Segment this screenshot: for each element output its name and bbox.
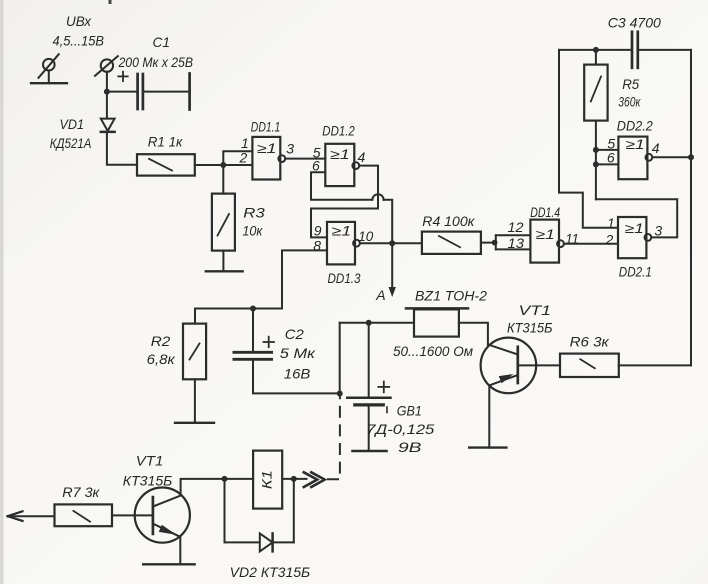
ground (R2) xyxy=(175,422,214,424)
svg-text:2: 2 xyxy=(239,150,248,166)
transistor Q2: VT1 left xyxy=(135,487,190,542)
wire R1 to gate xyxy=(195,164,253,166)
svg-text:UВх: UВх xyxy=(66,13,92,29)
svg-text:200 Мк х 25В: 200 Мк х 25В xyxy=(118,54,193,70)
svg-text:13: 13 xyxy=(508,235,525,251)
gate DD1.4 xyxy=(530,220,563,263)
svg-text:4: 4 xyxy=(358,149,366,165)
node contact chevrons xyxy=(304,472,325,487)
svg-text:DD1.4: DD1.4 xyxy=(530,204,560,220)
wire VT1 left emitter xyxy=(179,537,181,564)
wire C2 top lead xyxy=(252,309,254,352)
terminal X2 (right input plug) xyxy=(95,56,118,76)
wire to C1 xyxy=(107,91,136,93)
gate DD2.1 xyxy=(618,217,651,258)
node A arrowhead xyxy=(389,287,396,297)
node R4 split junction xyxy=(492,240,498,246)
svg-text:R6 3к: R6 3к xyxy=(570,334,610,350)
wire C1 right lead xyxy=(144,91,188,93)
svg-text:VD1: VD1 xyxy=(60,116,85,132)
resistor R1 xyxy=(137,154,195,175)
svg-text:С1: С1 xyxy=(153,34,171,50)
transistor Q1: VT1 right xyxy=(481,338,537,394)
wire C2 bottom lead xyxy=(253,361,340,394)
wire rail to R6 xyxy=(619,364,691,366)
wire DD1.3 out to R4 xyxy=(360,242,422,244)
svg-text:3: 3 xyxy=(286,140,294,156)
svg-text:С3 4700: С3 4700 xyxy=(608,15,661,31)
wire DD1.2 out to pin9 route xyxy=(311,166,378,238)
svg-text:R5: R5 xyxy=(622,76,639,92)
svg-text:10: 10 xyxy=(358,228,373,244)
wire VT1 collector xyxy=(459,323,488,345)
svg-text:R7 3к: R7 3к xyxy=(62,484,100,500)
svg-text:КТ315Б: КТ315Б xyxy=(507,320,553,336)
svg-text:≥1: ≥1 xyxy=(625,221,644,236)
svg-text:VT1: VT1 xyxy=(136,452,164,468)
wire left vertical to C2 line xyxy=(339,323,341,394)
wire R7 to VT1 base xyxy=(112,514,152,516)
svg-text:50...1600 Ом: 50...1600 Ом xyxy=(393,343,473,359)
svg-text:DD2.2: DD2.2 xyxy=(617,118,653,134)
wire R3 to ground xyxy=(222,251,224,272)
svg-text:4,5...15В: 4,5...15В xyxy=(53,33,105,49)
relay K1 xyxy=(253,451,282,509)
svg-text:4: 4 xyxy=(652,140,660,156)
node pin6 junction xyxy=(593,161,599,167)
svg-text:2: 2 xyxy=(605,232,614,248)
svg-text:6,8к: 6,8к xyxy=(147,351,176,367)
svg-text:9: 9 xyxy=(314,223,322,239)
diode VD2 xyxy=(225,479,294,552)
wire DD1.3 pin8 xyxy=(282,250,327,308)
scan top edge tick xyxy=(109,0,112,4)
svg-text:12: 12 xyxy=(508,219,524,235)
wire VT1 emitter to ground xyxy=(488,385,490,447)
svg-text:DD2.1: DD2.1 xyxy=(619,264,652,280)
svg-text:DD1.2: DD1.2 xyxy=(322,123,355,139)
node DD1.3 output junction xyxy=(389,240,395,246)
gate DD2.2 xyxy=(618,137,652,180)
op-amp U1: gate DD1.1 xyxy=(252,137,285,180)
svg-text:8: 8 xyxy=(313,238,321,254)
gate DD1.3 xyxy=(327,222,360,265)
svg-text:VT1: VT1 xyxy=(519,302,552,318)
node VD2 left junction xyxy=(222,476,228,482)
svg-text:R3: R3 xyxy=(243,205,265,221)
svg-text:9В: 9В xyxy=(398,439,422,455)
svg-text:11: 11 xyxy=(565,231,579,247)
resistor R6 xyxy=(560,354,619,377)
wire dashed to contact xyxy=(328,394,340,480)
svg-text:6: 6 xyxy=(312,158,320,174)
ground (VT1 left) xyxy=(143,563,194,565)
wire right rail xyxy=(690,50,692,366)
wire pin12/13 split xyxy=(496,235,531,249)
resistor R4 xyxy=(422,232,481,254)
svg-text:КТ315Б: КТ315Б xyxy=(123,473,173,489)
wire DD2.2 pin6 xyxy=(596,163,619,165)
svg-text:R1 1к: R1 1к xyxy=(148,134,184,150)
svg-text:С2: С2 xyxy=(285,326,304,342)
wire DD1.4 out to DD2.1 pin2 xyxy=(564,243,618,245)
node left arrowhead xyxy=(8,511,23,521)
wire VD1 to R1 xyxy=(107,133,137,165)
resistor R3 xyxy=(212,194,235,251)
svg-text:6: 6 xyxy=(607,150,615,166)
wire DD1.2 pin6 feedback xyxy=(311,172,372,200)
node rail R5 junction xyxy=(593,47,599,53)
wire GB1 top lead xyxy=(368,323,370,397)
node input junction xyxy=(104,89,110,95)
terminal X1 (left input plug) xyxy=(31,54,67,83)
gate DD1.2 xyxy=(325,144,359,186)
wire K1 to contacts xyxy=(282,478,306,480)
capacitor C1 xyxy=(118,72,143,109)
wire R2 to ground xyxy=(194,379,196,423)
svg-text:≥1: ≥1 xyxy=(330,147,350,162)
svg-text:GB1: GB1 xyxy=(397,403,422,419)
node GB1 branch xyxy=(366,320,372,326)
wire C2 top line xyxy=(195,309,282,324)
wire X2 stem xyxy=(106,72,108,119)
diode VD1 xyxy=(101,119,115,132)
wire to R3 xyxy=(222,165,224,194)
resistor R5 xyxy=(584,65,607,121)
svg-text:R4 100к: R4 100к xyxy=(422,213,475,229)
buzzer BZ1 xyxy=(406,308,468,336)
svg-text:К1: К1 xyxy=(258,470,274,489)
wire R6 to VT1 base xyxy=(520,364,561,366)
capacitor C2 xyxy=(234,337,274,360)
wire to point A xyxy=(391,243,393,288)
svg-text:≥1: ≥1 xyxy=(536,227,555,242)
wire R5 top lead xyxy=(595,50,597,65)
wire DD2.2 pin5 xyxy=(596,149,619,151)
svg-text:7Д-0,125: 7Д-0,125 xyxy=(366,421,434,437)
node C1 end bar xyxy=(188,74,191,110)
wire top rail right xyxy=(639,49,691,51)
wire VT1 left collector xyxy=(181,479,254,495)
resistor R7 xyxy=(55,504,113,526)
svg-text:А: А xyxy=(375,287,385,303)
svg-text:≥1: ≥1 xyxy=(257,141,277,156)
wire GB1 bottom lead xyxy=(368,407,370,452)
ground (GB1) xyxy=(352,450,386,452)
svg-text:КД521А: КД521А xyxy=(50,135,92,151)
svg-text:10к: 10к xyxy=(242,223,263,239)
wire BZ1 left lead xyxy=(340,322,414,324)
svg-text:≥1: ≥1 xyxy=(332,224,352,239)
ground (R3) xyxy=(206,270,243,272)
capacitor C3 xyxy=(632,32,638,68)
svg-text:5 Мк: 5 Мк xyxy=(280,345,317,361)
wire DD2.1 pin1 route from top rail xyxy=(559,50,618,228)
wire DD1.1 out to DD1.2 pin5 xyxy=(285,158,325,160)
wire arrow input left xyxy=(9,515,55,517)
svg-text:16В: 16В xyxy=(284,366,311,382)
svg-text:VD2 КТ315Б: VD2 КТ315Б xyxy=(230,564,311,580)
node base junction xyxy=(220,162,226,168)
wire DD2.2 out to rail xyxy=(652,156,691,158)
wire DD2.1 out feedback xyxy=(596,199,677,237)
wire top rail left xyxy=(559,49,631,51)
scan left edge strip xyxy=(0,0,4,584)
node VD2 right junction xyxy=(291,476,297,482)
svg-text:3: 3 xyxy=(654,223,662,239)
wire R5 bottom to feedback xyxy=(595,121,597,200)
wire feedback to node xyxy=(384,200,393,243)
gate symbols xyxy=(257,137,645,242)
node rail junction xyxy=(688,154,694,160)
svg-text:1: 1 xyxy=(607,215,615,231)
svg-text:360к: 360к xyxy=(618,94,641,110)
svg-text:R2: R2 xyxy=(151,333,171,349)
wire pin1 jog xyxy=(223,151,252,165)
svg-text:BZ1 ТОН-2: BZ1 ТОН-2 xyxy=(415,288,487,304)
svg-text:DD1.3: DD1.3 xyxy=(328,270,361,286)
svg-text:≥1: ≥1 xyxy=(626,137,645,152)
wire R4 to pins 12/13 xyxy=(481,242,496,244)
wire hop xyxy=(372,194,383,200)
ground (VT1 right) xyxy=(469,446,506,448)
node C2 branch xyxy=(250,306,256,312)
node dashed line junction xyxy=(337,391,343,397)
svg-text:DD1.1: DD1.1 xyxy=(251,119,281,135)
battery GB1 xyxy=(347,382,390,413)
resistor R2 xyxy=(183,324,206,380)
node pin5 junction xyxy=(593,147,599,153)
